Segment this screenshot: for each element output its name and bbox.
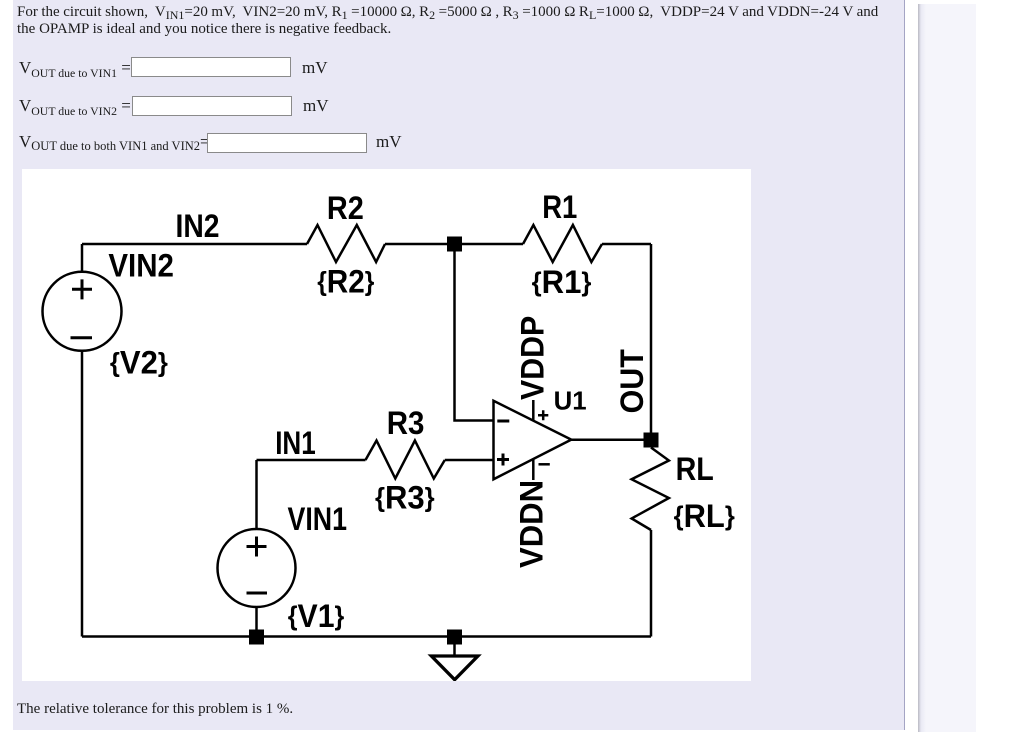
source VIN1 [218,529,296,607]
svg-text:IN1: IN1 [275,425,316,461]
wire RL bottom [650,530,653,637]
svg-text:VIN1: VIN1 [288,501,348,537]
svg-text:{RL}: {RL} [674,498,735,534]
svg-text:{R1}: {R1} [532,264,592,300]
VIN1 minus [247,592,268,595]
wire IN2 top left segment [82,243,307,246]
svg-text:{R2}: {R2} [317,264,374,300]
VIN2 minus [71,336,93,339]
svg-text:RL: RL [676,451,714,487]
ground stem [453,644,456,656]
svg-text:VIN2: VIN2 [108,247,173,283]
op-amp U1 [494,401,572,480]
wire R1 to right corner [602,243,651,246]
wire IN1 down to VIN1 [255,460,258,529]
svg-text:R2: R2 [327,190,364,226]
svg-text:U1: U1 [554,386,587,416]
resistor RL [632,448,669,531]
resistor R1 [523,225,602,262]
svg-text:{V2}: {V2} [110,344,168,380]
wire op-amp output [571,439,651,442]
source VIN2 [43,272,122,351]
op-amp plus input [497,454,509,466]
wire VIN1 bottom [255,607,258,637]
resistor R3 [366,441,445,479]
node VIN1 bottom junction [249,630,264,645]
wire bottom rail [82,635,651,638]
VIN1 plus [247,537,267,557]
wire VIN2 bottom / left rail [81,351,84,637]
VDDP pin [532,400,535,421]
node OUT junction [644,433,659,448]
wire IN1 [257,459,366,462]
VDDP pin plus [538,410,548,420]
node A junction [447,237,462,252]
wire right vertical to OUT [650,244,653,433]
svg-text:IN2: IN2 [176,208,220,244]
wire VIN2 top [81,244,84,272]
svg-text:R3: R3 [387,405,425,441]
node ground junction [447,630,462,645]
svg-text:{V1}: {V1} [288,598,345,634]
resistor R2 [307,225,385,262]
VDDN pin minus [539,463,550,466]
wire node A down [455,244,494,421]
svg-text:{R3}: {R3} [375,480,435,516]
svg-text:R1: R1 [542,189,577,225]
wire R2 to R1 [385,243,523,246]
VIN2 plus [72,279,92,299]
svg-text:VDDP: VDDP [515,316,551,400]
op-amp minus input dash [497,420,509,423]
svg-text:VDDN: VDDN [514,480,550,568]
wire R3 to op-amp plus [445,459,494,462]
ground [431,656,478,680]
svg-text:OUT: OUT [614,349,650,414]
VDDN pin [532,460,535,481]
